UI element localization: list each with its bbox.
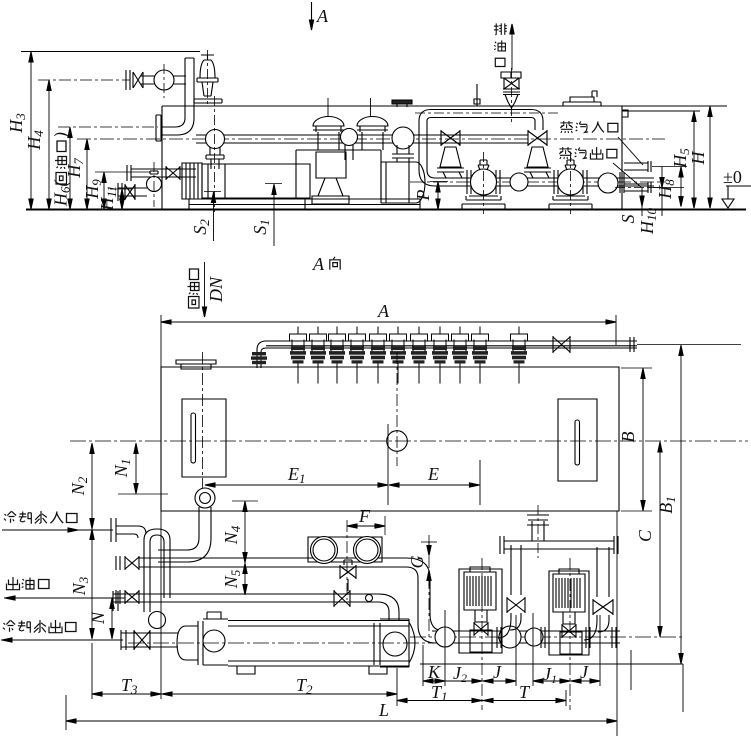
manifold extension line	[637, 344, 741, 346]
long pump centerlines	[481, 558, 483, 710]
process pipe 1 to gauges	[139, 558, 406, 567]
small pump piping far left	[118, 162, 196, 207]
dim C	[659, 442, 661, 638]
elbow ball 2	[598, 173, 618, 193]
main pipe run y133	[222, 135, 528, 143]
gauge panel	[308, 537, 382, 562]
svg-text:): )	[51, 132, 72, 139]
diamond valve on pipe2	[334, 590, 350, 607]
valve bowtie left 2	[116, 590, 139, 604]
dim H5	[693, 111, 695, 208]
svg-text:L: L	[378, 700, 389, 720]
rear pump casing block	[296, 150, 381, 199]
svg-text:J: J	[580, 662, 589, 682]
svg-text:A: A	[316, 6, 329, 26]
dim N1	[118, 493, 168, 495]
bottom pipe run y182	[435, 178, 654, 186]
dim J2	[445, 680, 482, 682]
hx right bonnet	[380, 619, 415, 667]
dim H6 (return oil port)	[58, 126, 158, 128]
dim J b	[570, 680, 600, 682]
riser pipe A	[144, 529, 170, 560]
dim N3	[91, 529, 93, 639]
E boundary line	[387, 424, 389, 505]
hx right flange	[374, 623, 380, 665]
dim N4	[232, 500, 258, 502]
dim N2	[91, 443, 93, 529]
datum level symbol	[722, 167, 751, 208]
ground line	[26, 209, 746, 211]
riser pipe to pump1	[498, 545, 525, 638]
bottom pipe centerline	[410, 181, 665, 183]
riser pipe to pump2	[584, 547, 613, 640]
steam pump P2	[549, 152, 592, 214]
svg-text:±0: ±0	[723, 167, 742, 187]
svg-text:H: H	[688, 151, 708, 166]
section arrow A	[309, 2, 329, 30]
svg-text:B: B	[618, 432, 638, 443]
manifold valves row	[290, 327, 307, 384]
ball joint riser-to-pipe	[206, 130, 225, 149]
manifold bow-tie valve	[553, 336, 570, 353]
main pipe centerline	[77, 138, 665, 140]
steam inlet stub	[624, 161, 651, 172]
label oil outlet	[4, 577, 125, 600]
ball joint on main pipe	[341, 129, 358, 146]
turbine cylinder	[381, 162, 425, 203]
row1 extension lines	[423, 610, 631, 690]
reducer cone R	[524, 147, 551, 178]
svg-text:N: N	[88, 611, 108, 625]
svg-text:DN: DN	[206, 276, 226, 303]
U-loop pipe over turbine	[392, 127, 414, 149]
dim L	[65, 695, 67, 730]
svg-text:F: F	[358, 506, 371, 526]
plan horizontal centerline	[70, 440, 748, 442]
label steam outlet	[559, 147, 641, 187]
steam outlet stub	[624, 182, 651, 193]
hx left head	[177, 621, 203, 665]
hanging branch bellows R	[528, 130, 547, 146]
dim N5	[244, 563, 246, 595]
valve bowtie left 1	[116, 556, 139, 570]
tank roof extension line to H dim	[622, 105, 727, 107]
dim S2	[213, 192, 215, 241]
top loop pipe y113	[431, 110, 531, 118]
dim J1	[533, 680, 570, 682]
dim A plan	[161, 315, 616, 369]
label cooling water inlet	[2, 511, 113, 532]
manifold pipe	[257, 341, 637, 368]
process pipe 2 long	[113, 591, 399, 620]
dome pump cap 1	[313, 117, 344, 151]
svg-text:C: C	[635, 529, 655, 542]
edge fitting	[622, 110, 628, 117]
dim B1	[680, 345, 682, 664]
dim P	[437, 182, 439, 210]
flange pairs on pipe run	[497, 627, 616, 648]
G elbow pipe down	[406, 558, 444, 643]
relief valve V1 on riser	[194, 50, 222, 107]
cooling inlet flange and pipe	[111, 518, 146, 542]
tank side view	[162, 106, 622, 209]
dim G	[428, 541, 430, 555]
elbow ball 1	[510, 173, 528, 191]
return oil pipe down-left	[158, 507, 211, 562]
thermometer valve	[340, 560, 356, 591]
sight glass left	[182, 399, 226, 477]
dim J a	[482, 680, 516, 682]
elbow joint circle to hx inlet	[149, 612, 166, 629]
heat exchanger shell	[228, 621, 409, 667]
dim T	[482, 700, 566, 702]
steam pump P1	[462, 152, 505, 214]
row2 extension lines	[92, 511, 566, 706]
label drain port (vertical)	[494, 23, 514, 70]
dim T1	[397, 700, 482, 702]
svg-text:A: A	[377, 301, 390, 321]
roof manhole fitting	[563, 91, 601, 106]
dim H9	[95, 171, 150, 173]
downcomer bellows	[252, 352, 266, 355]
valve ball plan 3	[525, 628, 543, 646]
label return-oil DN	[188, 262, 227, 317]
valve ball plan 1	[435, 627, 455, 647]
label steam inlet	[560, 121, 643, 165]
suction manifold plan	[500, 536, 618, 554]
dim K	[423, 680, 445, 682]
dim S1	[273, 184, 275, 246]
dim B	[621, 368, 652, 511]
dim E	[389, 484, 480, 486]
overflow pipe flange + bellows	[126, 70, 143, 90]
dome pump cap 2	[357, 117, 388, 151]
valve ball on overflow pipe	[154, 70, 174, 90]
dim T3	[92, 693, 161, 695]
svg-text:A: A	[312, 254, 325, 274]
dim H	[709, 106, 711, 208]
dim H10	[661, 167, 663, 217]
top loop right elbow	[531, 110, 543, 131]
label A-view	[312, 254, 340, 274]
return oil elbow circle	[195, 488, 215, 508]
pump suction drop pipe	[206, 147, 224, 169]
H5 extension line	[622, 110, 700, 112]
hx inlet pipe with bellows	[121, 630, 178, 650]
hx left channel and nozzle	[203, 612, 228, 665]
hanging branch bellows L	[441, 130, 460, 146]
dim T2	[161, 693, 397, 695]
suction tee riser	[527, 511, 549, 541]
dim F	[347, 525, 385, 527]
svg-text:K: K	[427, 662, 441, 682]
dim H3	[21, 51, 200, 53]
return oil flange on tank top	[176, 360, 216, 369]
pump unit 1 plan	[459, 567, 502, 653]
svg-text:E: E	[427, 464, 439, 484]
dim H8	[652, 166, 687, 168]
dim H11	[110, 188, 132, 190]
svg-text:G: G	[407, 556, 427, 569]
svg-text:J: J	[493, 662, 502, 682]
hx centerline	[128, 642, 455, 644]
tank center hole	[387, 431, 408, 452]
pump baseplate	[189, 199, 420, 210]
reducer cone L	[437, 147, 464, 178]
bottom pipe run plan	[432, 631, 620, 643]
label cooling water outlet	[1, 620, 123, 642]
outlet flange pair	[620, 172, 624, 193]
left riser pipe	[161, 58, 194, 135]
tank plan rectangle	[161, 367, 619, 511]
svg-text:P: P	[413, 190, 433, 202]
dim E1	[205, 484, 388, 486]
manifold end flange	[630, 337, 634, 352]
return oil nozzle flange on tank left wall	[156, 115, 161, 141]
multistage pump body	[202, 164, 310, 198]
right edge extension	[616, 511, 618, 736]
bottom boundary line	[420, 663, 683, 665]
overflow pipe y80	[140, 76, 186, 84]
volute pump body	[312, 152, 349, 204]
svg-text:S: S	[618, 215, 638, 224]
dim H4	[38, 79, 130, 81]
roof stub fitting	[474, 84, 480, 106]
roof vent fitting	[328, 98, 412, 117]
hx supports	[237, 666, 387, 674]
pump unit 2 plan	[549, 569, 589, 655]
small tap on pipe2	[366, 595, 373, 602]
sight glass right	[558, 399, 597, 481]
valve ball plan 2	[499, 626, 521, 648]
top loop left elbow and drop pipe	[419, 110, 435, 187]
dim N	[111, 598, 113, 639]
multistage pump fin block	[182, 163, 202, 199]
dim H7	[86, 139, 88, 209]
dim S right	[641, 188, 643, 217]
drain valve on top pipe	[501, 68, 521, 125]
